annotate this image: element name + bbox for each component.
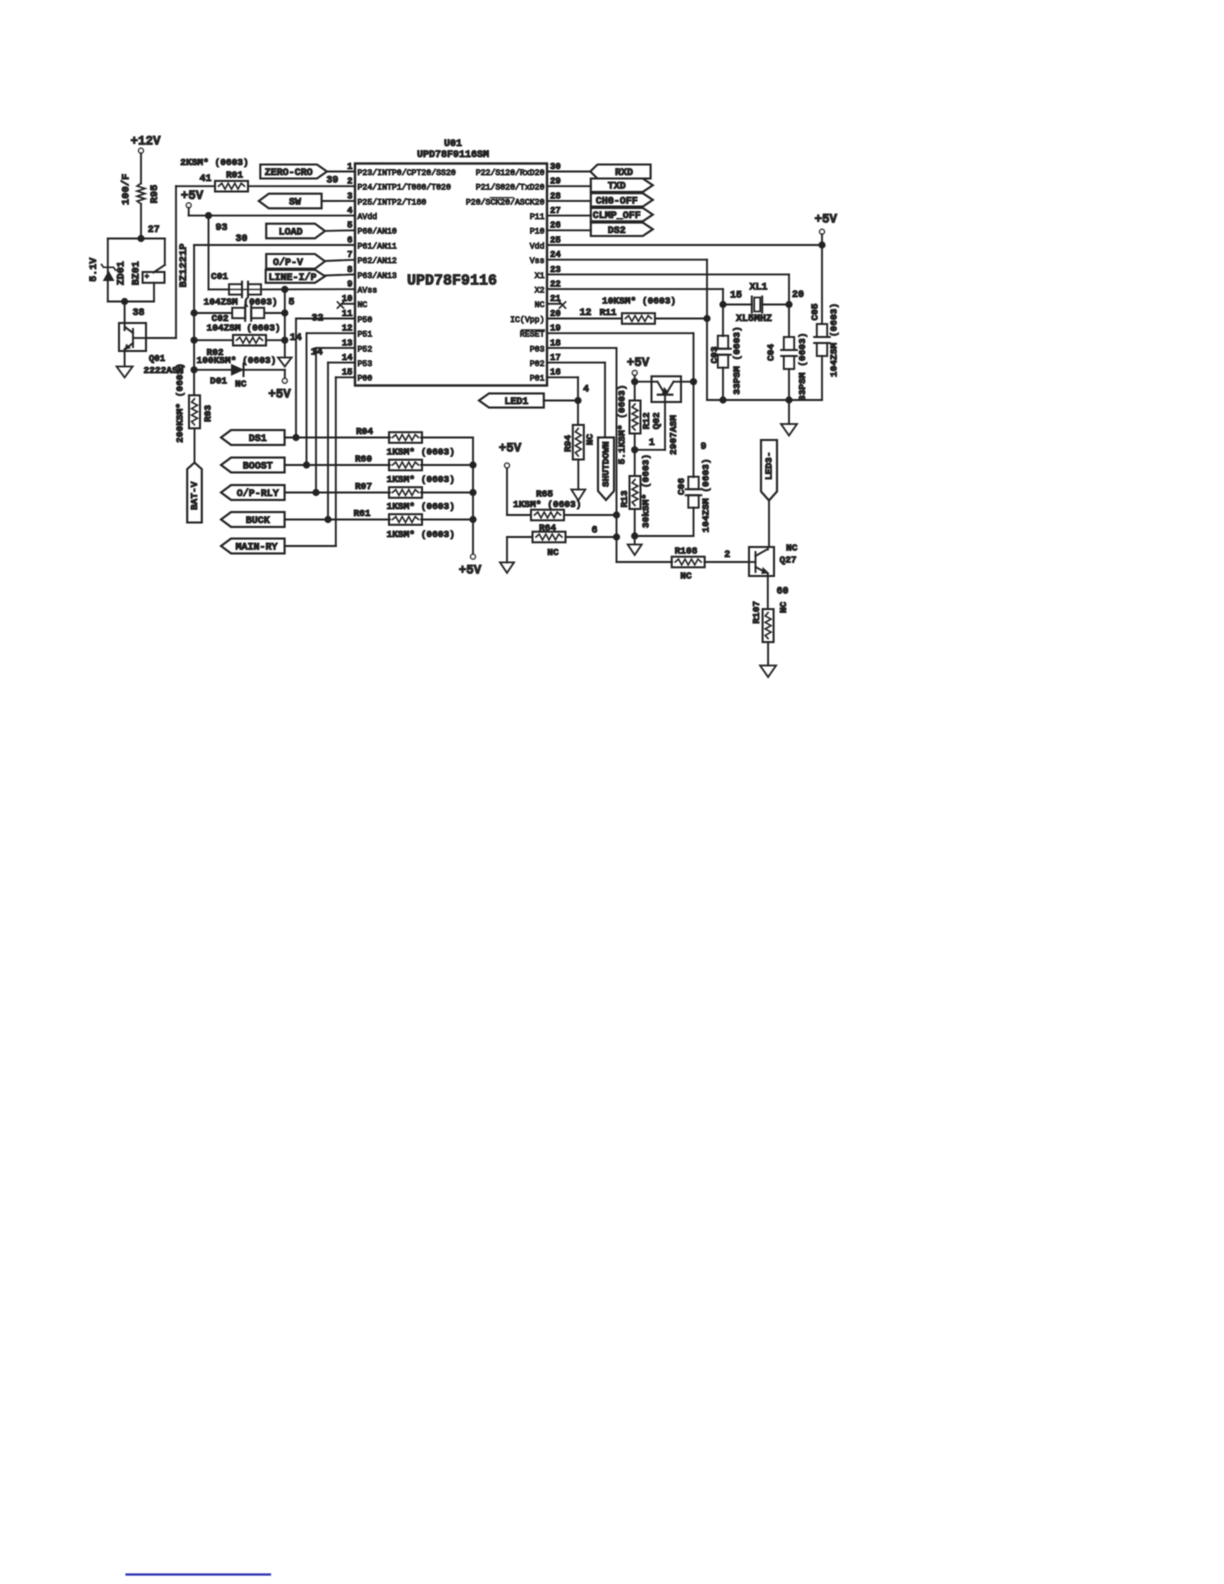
svg-text:14: 14 xyxy=(342,353,353,363)
svg-text:UPD78F9116: UPD78F9116 xyxy=(407,273,497,290)
svg-text:2: 2 xyxy=(724,550,730,561)
svg-text:Q02: Q02 xyxy=(651,412,662,429)
svg-text:5.1KSM* (0603): 5.1KSM* (0603) xyxy=(617,385,628,465)
svg-text:1: 1 xyxy=(347,162,353,172)
svg-text:100KSM* (0603): 100KSM* (0603) xyxy=(197,355,277,366)
svg-text:1KSM* (0603): 1KSM* (0603) xyxy=(387,474,455,485)
svg-text:P24/INTP1/T080/T020: P24/INTP1/T080/T020 xyxy=(358,183,451,193)
svg-text:18: 18 xyxy=(550,338,561,348)
svg-text:NC: NC xyxy=(585,434,596,446)
svg-text:X1: X1 xyxy=(535,272,545,281)
svg-text:R04: R04 xyxy=(356,426,373,437)
svg-text:1: 1 xyxy=(649,438,655,449)
svg-text:16: 16 xyxy=(550,368,561,378)
svg-text:+5V: +5V xyxy=(459,564,482,578)
svg-text:R07: R07 xyxy=(355,481,372,492)
svg-text:R107: R107 xyxy=(751,601,762,624)
svg-text:1KSM* (0603): 1KSM* (0603) xyxy=(513,499,581,510)
svg-text:30: 30 xyxy=(235,234,247,245)
svg-text:1KSM* (0603): 1KSM* (0603) xyxy=(387,529,455,540)
svg-text:P63/AN13: P63/AN13 xyxy=(358,271,397,281)
svg-text:24: 24 xyxy=(550,250,561,260)
svg-text:P21/S020/TxD20: P21/S020/TxD20 xyxy=(476,183,545,193)
svg-text:4: 4 xyxy=(583,385,589,396)
svg-text:30: 30 xyxy=(550,162,561,172)
svg-text:100/F: 100/F xyxy=(121,174,133,206)
svg-text:4: 4 xyxy=(347,206,353,216)
svg-text:U01: U01 xyxy=(444,139,462,150)
svg-text:P23/INTP0/CPT20/SS20: P23/INTP0/CPT20/SS20 xyxy=(358,168,456,178)
svg-text:NC: NC xyxy=(680,570,692,581)
svg-text:5: 5 xyxy=(288,298,294,309)
svg-text:60: 60 xyxy=(776,587,788,598)
svg-text:BUCK: BUCK xyxy=(246,516,270,527)
svg-text:C04: C04 xyxy=(766,344,777,361)
svg-text:P02: P02 xyxy=(530,360,545,369)
svg-text:CHG-OFF: CHG-OFF xyxy=(596,196,638,207)
svg-text:P52: P52 xyxy=(358,345,373,354)
svg-text:R94: R94 xyxy=(563,435,574,452)
svg-text:+5V: +5V xyxy=(627,356,650,370)
svg-text:C06: C06 xyxy=(676,478,687,495)
svg-text:11: 11 xyxy=(342,309,353,319)
svg-text:P10: P10 xyxy=(530,228,545,237)
svg-text:2: 2 xyxy=(347,177,352,187)
svg-text:NC: NC xyxy=(235,379,247,390)
svg-text:+12V: +12V xyxy=(130,135,161,149)
svg-text:6: 6 xyxy=(591,525,597,536)
svg-text:BZ01: BZ01 xyxy=(131,261,142,285)
svg-text:14: 14 xyxy=(311,348,323,359)
svg-text:P03: P03 xyxy=(530,345,545,354)
svg-text:XL1: XL1 xyxy=(749,283,767,294)
svg-text:ZD01: ZD01 xyxy=(116,261,127,285)
svg-text:O/P-V: O/P-V xyxy=(273,257,303,269)
svg-text:P25/INTP2/T180: P25/INTP2/T180 xyxy=(358,197,427,207)
svg-text:C05: C05 xyxy=(810,303,821,320)
svg-text:+5V: +5V xyxy=(181,189,204,203)
svg-text:P22/S120/RxD20: P22/S120/RxD20 xyxy=(476,168,545,178)
svg-text:AVss: AVss xyxy=(358,287,378,296)
svg-text:O/P-RLY: O/P-RLY xyxy=(237,488,279,500)
svg-text:2KSM* (0603): 2KSM* (0603) xyxy=(180,157,248,168)
svg-text:SHUTDOWN: SHUTDOWN xyxy=(601,441,612,487)
svg-text:P53: P53 xyxy=(358,360,373,369)
svg-text:39: 39 xyxy=(326,176,338,187)
svg-text:27: 27 xyxy=(148,225,160,236)
svg-text:X2: X2 xyxy=(535,287,545,296)
svg-text:2907ASM: 2907ASM xyxy=(668,415,679,455)
svg-text:BAT-V: BAT-V xyxy=(189,481,200,510)
svg-text:NC: NC xyxy=(535,301,545,310)
svg-text:R95: R95 xyxy=(149,185,161,204)
svg-text:8: 8 xyxy=(347,265,352,275)
svg-text:RESET: RESET xyxy=(520,331,545,340)
svg-text:DS2: DS2 xyxy=(608,226,626,237)
svg-text:1KSM* (0603): 1KSM* (0603) xyxy=(387,446,455,457)
svg-text:UPD78F9116SM: UPD78F9116SM xyxy=(417,150,489,161)
svg-text:Vss: Vss xyxy=(530,257,545,266)
svg-text:Vdd: Vdd xyxy=(530,241,545,251)
svg-text:41: 41 xyxy=(199,174,211,185)
svg-text:R108: R108 xyxy=(675,545,698,556)
svg-text:XL5MHZ: XL5MHZ xyxy=(736,314,772,325)
svg-text:P61/AN11: P61/AN11 xyxy=(358,241,397,251)
svg-text:+5V: +5V xyxy=(499,442,522,456)
svg-text:P01: P01 xyxy=(530,375,545,384)
svg-text:28: 28 xyxy=(550,191,561,201)
svg-text:R03: R03 xyxy=(203,405,214,422)
svg-text:SW: SW xyxy=(289,198,301,209)
svg-text:33PSM (0603): 33PSM (0603) xyxy=(797,333,808,401)
svg-text:6: 6 xyxy=(347,235,352,245)
svg-text:5: 5 xyxy=(347,221,352,231)
svg-text:AVdd: AVdd xyxy=(358,212,378,222)
svg-text:R01: R01 xyxy=(226,170,243,181)
svg-text:200KSM* (0603): 200KSM* (0603) xyxy=(175,363,186,443)
svg-text:5.1V: 5.1V xyxy=(89,258,100,282)
svg-text:33PSM (0603): 33PSM (0603) xyxy=(732,326,743,394)
svg-text:R64: R64 xyxy=(539,523,556,534)
svg-text:12: 12 xyxy=(342,324,353,334)
svg-text:P20/SCK20/ASCK20: P20/SCK20/ASCK20 xyxy=(466,197,545,207)
svg-text:13: 13 xyxy=(342,338,353,348)
svg-text:7: 7 xyxy=(347,250,352,260)
svg-text:30kSM* (0603): 30kSM* (0603) xyxy=(641,454,652,528)
svg-text:17: 17 xyxy=(550,353,561,363)
svg-text:+5V: +5V xyxy=(268,388,291,402)
svg-text:IC(Vpp): IC(Vpp) xyxy=(510,315,544,325)
svg-text:Q27: Q27 xyxy=(780,554,797,565)
svg-text:P62/AN12: P62/AN12 xyxy=(358,256,397,266)
svg-text:R61: R61 xyxy=(353,508,370,519)
svg-text:P11: P11 xyxy=(530,213,545,222)
svg-text:RXD: RXD xyxy=(615,168,633,179)
svg-text:15: 15 xyxy=(342,368,353,378)
svg-text:20: 20 xyxy=(792,290,804,301)
svg-text:P60/AN10: P60/AN10 xyxy=(358,227,397,237)
svg-text:22: 22 xyxy=(550,280,561,290)
svg-text:93: 93 xyxy=(215,223,227,234)
svg-text:26: 26 xyxy=(550,221,561,231)
svg-text:TXD: TXD xyxy=(608,182,626,193)
svg-text:C03: C03 xyxy=(709,346,720,363)
svg-text:23: 23 xyxy=(550,265,561,275)
svg-text:CLMP_OFF: CLMP_OFF xyxy=(593,211,641,222)
svg-text:104ZSM (0603): 104ZSM (0603) xyxy=(829,303,840,377)
svg-text:+5V: +5V xyxy=(815,213,838,227)
svg-text:14: 14 xyxy=(290,333,302,344)
svg-text:LINE-I/P: LINE-I/P xyxy=(268,272,316,284)
svg-text:R11: R11 xyxy=(599,307,616,318)
svg-text:P51: P51 xyxy=(358,331,373,340)
svg-text:NC: NC xyxy=(786,543,798,554)
svg-text:38: 38 xyxy=(132,308,144,319)
svg-text:29: 29 xyxy=(550,177,561,187)
svg-text:15: 15 xyxy=(730,291,742,302)
svg-text:C01: C01 xyxy=(211,271,228,282)
svg-text:BZ1221P: BZ1221P xyxy=(178,243,190,287)
svg-text:25: 25 xyxy=(550,235,561,245)
svg-text:R60: R60 xyxy=(355,453,372,464)
svg-text:1KSM* (0603): 1KSM* (0603) xyxy=(387,501,455,512)
svg-text:MAIN-RY: MAIN-RY xyxy=(235,543,277,554)
svg-text:R13: R13 xyxy=(619,490,630,507)
svg-text:19: 19 xyxy=(550,324,561,334)
svg-text:P50: P50 xyxy=(358,316,373,325)
svg-text:NC: NC xyxy=(547,547,559,558)
svg-text:NC: NC xyxy=(778,601,789,613)
svg-text:ZERO-CRO: ZERO-CRO xyxy=(265,168,313,179)
svg-text:104ZSM (0603): 104ZSM (0603) xyxy=(204,297,278,308)
svg-text:Q01: Q01 xyxy=(149,354,166,364)
svg-text:P00: P00 xyxy=(358,375,373,384)
svg-text:LOAD: LOAD xyxy=(279,228,303,239)
svg-text:27: 27 xyxy=(550,206,561,216)
svg-text:104ZSM (0603): 104ZSM (0603) xyxy=(207,323,281,334)
svg-text:104ZSM (0603): 104ZSM (0603) xyxy=(701,458,712,532)
svg-text:9: 9 xyxy=(700,442,706,453)
svg-text:9: 9 xyxy=(347,280,352,290)
svg-text:10KSM* (0603): 10KSM* (0603) xyxy=(602,296,676,307)
svg-text:+: + xyxy=(145,273,150,281)
svg-text:LED1: LED1 xyxy=(504,397,528,408)
svg-text:NC: NC xyxy=(358,301,368,310)
svg-text:BOOST: BOOST xyxy=(243,462,273,473)
svg-text:LED3-: LED3- xyxy=(764,452,775,481)
svg-text:D01: D01 xyxy=(210,375,227,386)
svg-text:DS1: DS1 xyxy=(249,434,267,445)
svg-text:3: 3 xyxy=(347,191,352,201)
svg-text:20: 20 xyxy=(550,309,561,319)
svg-text:32: 32 xyxy=(311,314,323,325)
